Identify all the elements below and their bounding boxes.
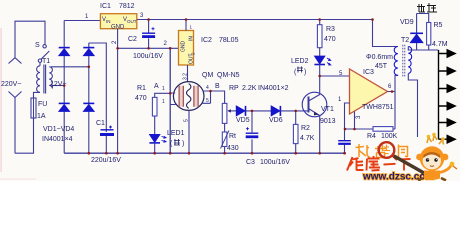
LED LED1 green <box>149 135 166 143</box>
svg-text:VD9: VD9 <box>400 19 414 26</box>
wire bridge plus to IC1 Vin <box>64 20 100 22</box>
wire T1 secondary bottom tap to bridge left column <box>52 85 64 87</box>
label sensor pins <box>162 73 209 122</box>
resistor R3 470 <box>317 20 322 56</box>
wire LED2 to collector junction and IC3 <box>320 65 350 77</box>
wire C1 to bottom rail <box>105 136 107 153</box>
resistor R4 100K <box>345 127 396 132</box>
svg-text:OUT: OUT <box>127 19 137 24</box>
svg-text:5: 5 <box>206 98 209 104</box>
svg-text:78L05: 78L05 <box>219 37 239 44</box>
diode VD9 <box>410 14 423 51</box>
svg-text:VD1~VD4: VD1~VD4 <box>43 126 74 133</box>
svg-text:C2: C2 <box>128 36 137 43</box>
svg-text:2.2K: 2.2K <box>242 85 257 92</box>
svg-text:3 2: 3 2 <box>183 73 189 80</box>
svg-text:45T: 45T <box>375 63 388 70</box>
watermark find-chip text <box>356 144 408 158</box>
wire T1 primary bottom to fuse <box>34 92 41 98</box>
svg-text:R5: R5 <box>434 22 443 29</box>
svg-text:220u/16V: 220u/16V <box>91 157 121 164</box>
wire top rail to T2 primary <box>373 20 398 47</box>
svg-text:IC2: IC2 <box>201 37 212 44</box>
capacitor C2 100u/16V <box>142 20 155 49</box>
bottom rail <box>64 152 346 154</box>
mains plug lower prong <box>9 92 22 154</box>
svg-text:IC1: IC1 <box>100 3 111 10</box>
svg-text:4: 4 <box>206 85 209 91</box>
label IC3 pins <box>338 71 392 119</box>
svg-text:9013: 9013 <box>320 118 336 125</box>
resistor R2 4.7K <box>293 111 298 153</box>
label green hanzi <box>174 139 180 145</box>
svg-text:430: 430 <box>227 145 239 152</box>
diode VD4 <box>83 103 94 111</box>
svg-text:R4: R4 <box>367 133 376 140</box>
svg-text:Φ0.6mm: Φ0.6mm <box>366 54 393 61</box>
svg-text:R2: R2 <box>301 125 310 132</box>
wire node B to RP <box>211 91 225 103</box>
wire mains upper loop <box>15 21 45 44</box>
svg-text:): ) <box>304 69 306 76</box>
svg-text:LED1: LED1 <box>167 130 185 137</box>
wire VD9 top to R5 top <box>417 14 429 23</box>
svg-text:5: 5 <box>184 119 190 122</box>
wire VD6 to VT1 base <box>280 110 308 112</box>
scan noise <box>0 28 3 172</box>
label IC1 pins <box>85 13 144 44</box>
diode VD6 <box>271 106 280 116</box>
switch S <box>38 45 49 63</box>
thermistor Rt 430 <box>221 131 230 149</box>
fuse FU 1A <box>31 98 36 118</box>
output arrows column <box>439 49 457 144</box>
svg-text:100u/16V: 100u/16V <box>133 53 163 60</box>
svg-text:R3: R3 <box>326 26 335 33</box>
label IC2 internals <box>181 25 196 65</box>
wire IC1 pin2 down <box>117 29 119 154</box>
label silicon stack (hanzi) <box>417 3 437 12</box>
resistor R1 470 <box>152 97 157 116</box>
svg-text:FU: FU <box>38 101 47 108</box>
capacitor C3 100u/16V <box>246 111 259 153</box>
op-amp IC3 TWH8751 <box>350 69 388 114</box>
wire fuse bottom loop to lower prong <box>15 118 34 153</box>
wire bridge right column <box>88 43 90 153</box>
svg-text:S: S <box>35 42 40 49</box>
resistor R5 4.7M <box>427 23 431 51</box>
watermark weiku text <box>347 156 411 171</box>
svg-text:7812: 7812 <box>119 3 135 10</box>
wire T2 secondary bottom return <box>408 74 417 138</box>
wire Rt to rail <box>224 147 226 154</box>
watermark mascot <box>394 133 457 181</box>
svg-text:VD5: VD5 <box>236 117 250 124</box>
transistor VT1 9013 <box>302 76 327 153</box>
svg-text:VT1: VT1 <box>321 106 334 113</box>
svg-text:1: 1 <box>162 99 165 105</box>
gas sensor QM-N5 <box>170 82 210 111</box>
svg-text:): ) <box>182 141 184 148</box>
svg-text:T1: T1 <box>42 58 50 65</box>
diode VD1 <box>59 48 70 56</box>
wire T2 secondary top to VD9 node <box>408 47 438 51</box>
svg-text:VD6: VD6 <box>269 117 283 124</box>
wire bridge left column <box>63 21 65 154</box>
svg-text:A: A <box>154 83 159 90</box>
wire T1 secondary top tap to bridge right column <box>51 66 89 68</box>
junction dots <box>147 18 150 21</box>
wire LED1 to rail <box>154 143 156 153</box>
potentiometer RP 2.2K <box>222 103 236 123</box>
svg-text:GND: GND <box>181 41 187 53</box>
svg-text:T2: T2 <box>401 37 409 44</box>
svg-text:R1: R1 <box>137 85 146 92</box>
svg-text:IN4001×2: IN4001×2 <box>258 85 289 92</box>
wire node A <box>155 93 171 97</box>
svg-text:C3: C3 <box>246 159 255 166</box>
svg-text:LED2: LED2 <box>291 58 309 65</box>
wire sensor bottom pin <box>188 110 190 153</box>
svg-text:Rt: Rt <box>229 133 236 140</box>
capacitor C1 220u/16V <box>100 126 114 135</box>
svg-text:C1: C1 <box>96 120 105 127</box>
svg-text:470: 470 <box>135 95 147 102</box>
svg-text:RP: RP <box>229 85 239 92</box>
svg-text:QM-N5: QM-N5 <box>217 72 240 79</box>
svg-text:B: B <box>215 83 220 90</box>
svg-text:1: 1 <box>162 86 165 92</box>
wire IC2 bottom pin to sensor <box>187 65 189 82</box>
svg-text:TWH8751: TWH8751 <box>362 104 394 111</box>
svg-text:100u/16V: 100u/16V <box>260 159 290 166</box>
wire IC1 Vout top rail <box>137 19 373 21</box>
svg-text:220V~: 220V~ <box>1 81 21 88</box>
wire bridge right top to C1 <box>89 43 107 132</box>
transformer T2 <box>394 45 412 77</box>
wire VD5 to VD6 <box>246 110 272 112</box>
svg-text:IN4001×4: IN4001×4 <box>42 136 73 143</box>
transformer T1 <box>37 65 53 94</box>
wire IC2 top pin <box>185 20 187 31</box>
label red hanzi <box>297 67 303 73</box>
svg-text:IN: IN <box>189 36 195 41</box>
mains plug upper prong <box>9 44 22 64</box>
wire RP to Rt <box>224 123 226 132</box>
wire ground rail under IC1 <box>118 47 179 49</box>
diode VD5 <box>236 106 245 116</box>
svg-text:IN: IN <box>106 19 111 24</box>
label IC1 internals <box>102 17 137 31</box>
svg-text:12V~: 12V~ <box>50 81 67 88</box>
svg-text:4.7K: 4.7K <box>300 135 315 142</box>
svg-text:1A: 1A <box>37 113 46 120</box>
capacitor C4 <box>338 129 351 153</box>
watermark magnifier <box>379 142 398 159</box>
wire IC3 output pin6 <box>388 76 398 130</box>
op IC1 7812 regulator body <box>100 14 136 29</box>
wire IC3 pin3 <box>354 112 356 130</box>
svg-text:100K: 100K <box>381 133 398 140</box>
svg-text:IC3: IC3 <box>363 69 374 76</box>
diode VD3 <box>59 103 70 111</box>
diode VD2 <box>83 48 94 56</box>
svg-text:4.7M: 4.7M <box>432 41 448 48</box>
LED LED2 red <box>314 56 330 65</box>
wire ground drop line <box>169 48 171 153</box>
svg-text:470: 470 <box>324 36 336 43</box>
svg-text:QM: QM <box>202 72 213 79</box>
svg-text:GND: GND <box>111 25 125 31</box>
wire IC3 pin1 <box>345 103 350 129</box>
op IC2 78L05 body <box>179 31 194 66</box>
wire switch to T1 primary <box>39 62 41 65</box>
wire R1 to LED1 <box>154 116 156 134</box>
